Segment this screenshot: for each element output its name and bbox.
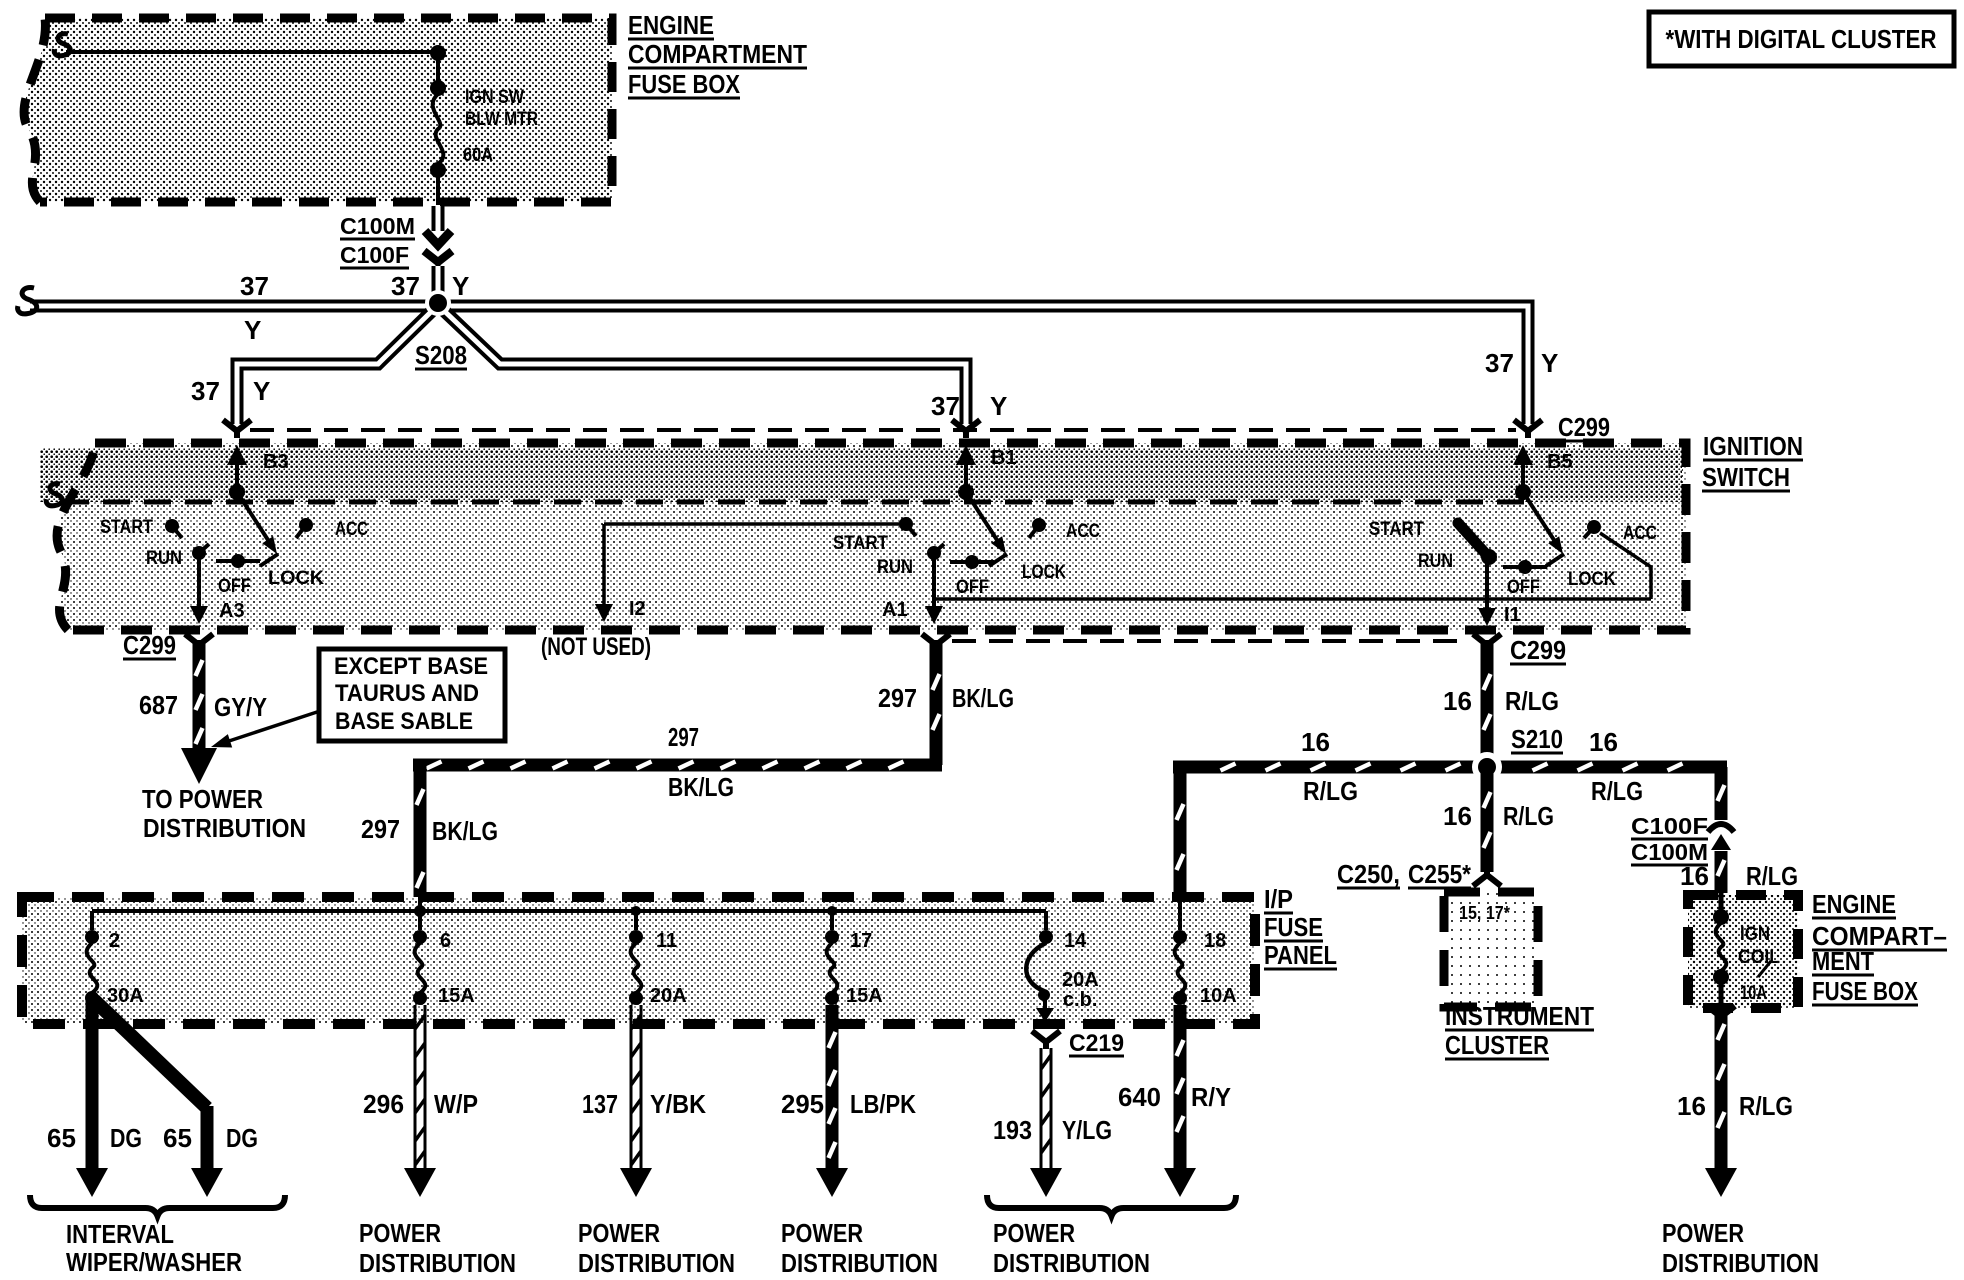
svg-text:296: 296: [363, 1089, 404, 1119]
svg-text:R/LG: R/LG: [1303, 776, 1358, 806]
svg-text:FUSE: FUSE: [1264, 912, 1323, 942]
svg-text:DISTRIBUTION: DISTRIBUTION: [359, 1248, 516, 1278]
svg-text:DISTRIBUTION: DISTRIBUTION: [993, 1248, 1150, 1278]
svg-text:10A: 10A: [1740, 983, 1767, 1004]
svg-text:A1: A1: [882, 599, 908, 621]
svg-text:6: 6: [440, 930, 451, 952]
svg-text:17: 17: [850, 930, 872, 952]
svg-text:BK/LG: BK/LG: [668, 772, 734, 802]
svg-text:DISTRIBUTION: DISTRIBUTION: [1662, 1248, 1819, 1278]
svg-text:ENGINE: ENGINE: [628, 10, 714, 40]
svg-text:WIPER/WASHER: WIPER/WASHER: [66, 1247, 242, 1277]
svg-text:RUN: RUN: [1418, 551, 1453, 572]
svg-text:IGN: IGN: [1740, 924, 1770, 945]
svg-text:R/LG: R/LG: [1739, 1091, 1793, 1121]
svg-text:CLUSTER: CLUSTER: [1445, 1030, 1549, 1060]
svg-text:137: 137: [582, 1089, 618, 1119]
svg-text:DISTRIBUTION: DISTRIBUTION: [781, 1248, 938, 1278]
svg-text:C100F: C100F: [340, 242, 409, 268]
svg-text:15A: 15A: [438, 985, 475, 1007]
svg-text:DISTRIBUTION: DISTRIBUTION: [143, 813, 306, 843]
svg-text:RUN: RUN: [146, 548, 182, 569]
svg-text:37: 37: [191, 376, 220, 406]
svg-text:297: 297: [668, 722, 699, 752]
svg-text:297: 297: [361, 814, 400, 844]
svg-text:16: 16: [1443, 686, 1472, 716]
svg-text:Y: Y: [1541, 348, 1558, 378]
svg-text:B3: B3: [263, 451, 289, 473]
svg-text:FUSE BOX: FUSE BOX: [1812, 976, 1919, 1006]
svg-text:295: 295: [781, 1089, 824, 1119]
svg-text:Y: Y: [253, 376, 270, 406]
svg-text:Y: Y: [990, 391, 1007, 421]
svg-text:Y: Y: [244, 315, 261, 345]
svg-text:(NOT USED): (NOT USED): [541, 633, 651, 661]
svg-text:R/LG: R/LG: [1746, 861, 1798, 891]
svg-text:LOCK: LOCK: [268, 568, 324, 589]
svg-text:65: 65: [47, 1123, 76, 1153]
svg-text:16: 16: [1443, 801, 1472, 831]
svg-text:10A: 10A: [1200, 985, 1237, 1007]
svg-text:OFF: OFF: [956, 577, 989, 598]
svg-text:16: 16: [1589, 727, 1618, 757]
svg-text:DG: DG: [110, 1123, 142, 1153]
svg-text:W/P: W/P: [434, 1089, 478, 1119]
svg-text:S208: S208: [415, 340, 467, 370]
svg-text:687: 687: [139, 690, 178, 720]
svg-text:INSTRUMENT: INSTRUMENT: [1445, 1001, 1594, 1031]
svg-text:IGN SW: IGN SW: [465, 87, 524, 108]
svg-text:SWITCH: SWITCH: [1702, 462, 1790, 492]
svg-text:14: 14: [1064, 930, 1087, 952]
svg-text:C219: C219: [1069, 1030, 1124, 1057]
svg-text:BASE SABLE: BASE SABLE: [335, 708, 473, 735]
svg-text:297: 297: [878, 683, 917, 713]
svg-text:TO POWER: TO POWER: [142, 784, 263, 814]
svg-text:B1: B1: [991, 447, 1017, 469]
svg-text:c.b.: c.b.: [1063, 989, 1097, 1011]
svg-text:FUSE BOX: FUSE BOX: [628, 69, 741, 99]
svg-text:193: 193: [993, 1115, 1032, 1145]
svg-text:640: 640: [1118, 1082, 1161, 1112]
svg-text:*WITH DIGITAL CLUSTER: *WITH DIGITAL CLUSTER: [1666, 24, 1937, 54]
svg-text:DISTRIBUTION: DISTRIBUTION: [578, 1248, 735, 1278]
svg-text:BLW MTR: BLW MTR: [465, 109, 538, 130]
svg-text:RUN: RUN: [877, 557, 913, 578]
svg-text:TAURUS AND: TAURUS AND: [335, 680, 479, 707]
svg-text:C299: C299: [123, 630, 176, 660]
svg-text:ENGINE: ENGINE: [1812, 889, 1896, 919]
svg-text:COMPARTMENT: COMPARTMENT: [628, 39, 807, 69]
svg-text:20A: 20A: [650, 985, 687, 1007]
svg-text:OFF: OFF: [218, 576, 251, 597]
svg-text:I1: I1: [1504, 604, 1521, 626]
svg-text:16: 16: [1301, 727, 1330, 757]
svg-text:I/P: I/P: [1264, 884, 1293, 914]
svg-text:B5: B5: [1547, 451, 1573, 473]
svg-text:START: START: [100, 517, 153, 538]
svg-text:LOCK: LOCK: [1022, 562, 1066, 583]
svg-text:20A: 20A: [1062, 969, 1099, 991]
svg-text:START: START: [1369, 519, 1424, 540]
svg-text:C100M: C100M: [340, 213, 415, 239]
svg-text:POWER: POWER: [359, 1218, 441, 1248]
svg-text:37: 37: [391, 271, 420, 301]
svg-text:POWER: POWER: [993, 1218, 1075, 1248]
svg-text:16: 16: [1677, 1091, 1706, 1121]
svg-text:C299: C299: [1510, 635, 1566, 665]
svg-text:37: 37: [1485, 348, 1514, 378]
svg-text:Y: Y: [452, 271, 469, 301]
svg-text:I2: I2: [629, 598, 646, 620]
svg-text:R/LG: R/LG: [1591, 776, 1643, 806]
svg-text:COIL: COIL: [1738, 947, 1780, 968]
svg-text:18: 18: [1204, 930, 1226, 952]
svg-text:START: START: [833, 533, 888, 554]
svg-text:15, 17*: 15, 17*: [1459, 903, 1510, 923]
svg-text:C255*: C255*: [1408, 859, 1472, 889]
svg-text:Y/LG: Y/LG: [1062, 1115, 1112, 1145]
svg-text:15A: 15A: [846, 985, 883, 1007]
svg-text:BK/LG: BK/LG: [952, 683, 1014, 713]
svg-text:OFF: OFF: [1507, 577, 1540, 598]
svg-text:37: 37: [931, 391, 960, 421]
svg-text:INTERVAL: INTERVAL: [66, 1219, 174, 1249]
svg-text:C100F: C100F: [1631, 813, 1708, 839]
svg-text:ACC: ACC: [1066, 521, 1100, 542]
svg-text:37: 37: [240, 271, 269, 301]
svg-text:R/LG: R/LG: [1503, 801, 1554, 831]
svg-text:POWER: POWER: [781, 1218, 863, 1248]
svg-text:PANEL: PANEL: [1264, 940, 1337, 970]
svg-text:EXCEPT BASE: EXCEPT BASE: [334, 653, 488, 680]
svg-text:65: 65: [163, 1123, 192, 1153]
svg-text:LB/PK: LB/PK: [850, 1089, 916, 1119]
svg-text:S210: S210: [1511, 724, 1563, 754]
svg-text:IGNITION: IGNITION: [1703, 431, 1803, 461]
svg-text:30A: 30A: [107, 985, 144, 1007]
svg-text:C250,: C250,: [1337, 859, 1400, 889]
svg-text:60A: 60A: [463, 145, 493, 166]
svg-text:POWER: POWER: [578, 1218, 660, 1248]
svg-text:GY/Y: GY/Y: [214, 692, 267, 722]
svg-text:C299: C299: [1558, 412, 1610, 442]
svg-text:Y/BK: Y/BK: [650, 1089, 706, 1119]
svg-text:MENT: MENT: [1812, 946, 1874, 976]
svg-text:11: 11: [656, 930, 677, 952]
svg-text:BK/LG: BK/LG: [432, 816, 498, 846]
svg-text:ACC: ACC: [1623, 523, 1657, 544]
svg-text:A3: A3: [219, 600, 245, 622]
svg-text:16: 16: [1680, 861, 1709, 891]
svg-text:LOCK: LOCK: [1568, 569, 1616, 590]
svg-text:DG: DG: [226, 1123, 258, 1153]
svg-text:ACC: ACC: [335, 519, 368, 540]
svg-text:POWER: POWER: [1662, 1218, 1744, 1248]
svg-text:R/Y: R/Y: [1191, 1082, 1231, 1112]
svg-text:R/LG: R/LG: [1505, 686, 1559, 716]
svg-text:2: 2: [109, 930, 120, 952]
